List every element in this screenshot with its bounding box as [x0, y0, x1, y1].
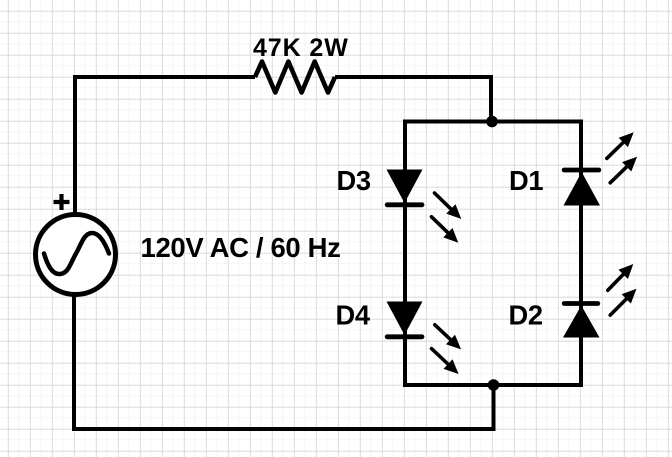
LED D1 light arrow 2 [610, 157, 637, 183]
LED D4 light arrow 2 [432, 349, 459, 374]
LED D2 light arrow 2 [610, 289, 636, 315]
LED D1 cathode bar [564, 168, 599, 173]
svg-text:D4: D4 [336, 300, 371, 331]
LED D1 triangle [564, 172, 601, 206]
wire bridge bottom rail [403, 383, 583, 387]
LED D2 light arrow 1 [608, 264, 634, 290]
AC source sine wave [44, 233, 109, 274]
LED D3 light arrow 2 [432, 217, 459, 243]
wire top-right: resistor to bridge top [335, 77, 491, 122]
svg-text:D1: D1 [509, 165, 543, 196]
LED D1 light arrow 1 [607, 132, 634, 158]
AC source V1 circle [36, 215, 116, 295]
wire bridge top rail [403, 120, 583, 124]
LED D4 cathode bar [387, 334, 422, 339]
LED D4 triangle [387, 302, 423, 336]
svg-text:120V AC / 60 Hz: 120V AC / 60 Hz [141, 232, 341, 263]
LED D3 light arrow 1 [435, 193, 462, 219]
svg-text:D2: D2 [509, 300, 543, 331]
junction node top [486, 116, 498, 128]
plus polarity mark [54, 194, 70, 210]
LED D2 triangle [563, 306, 600, 338]
wire bridge right leg [579, 122, 583, 386]
wire top-left: source top to resistor [75, 77, 255, 214]
junction node bottom [488, 379, 500, 391]
LED D4 light arrow 1 [435, 325, 461, 350]
svg-text:D3: D3 [337, 165, 371, 196]
LED D3 triangle [387, 170, 423, 204]
svg-text:47K 2W: 47K 2W [253, 34, 349, 62]
resistor R1 47K 2W [255, 62, 335, 93]
LED D3 cathode bar [387, 202, 422, 207]
wire bridge left leg [403, 122, 407, 386]
LED D2 cathode bar [564, 301, 598, 306]
wire bottom return [74, 294, 494, 429]
